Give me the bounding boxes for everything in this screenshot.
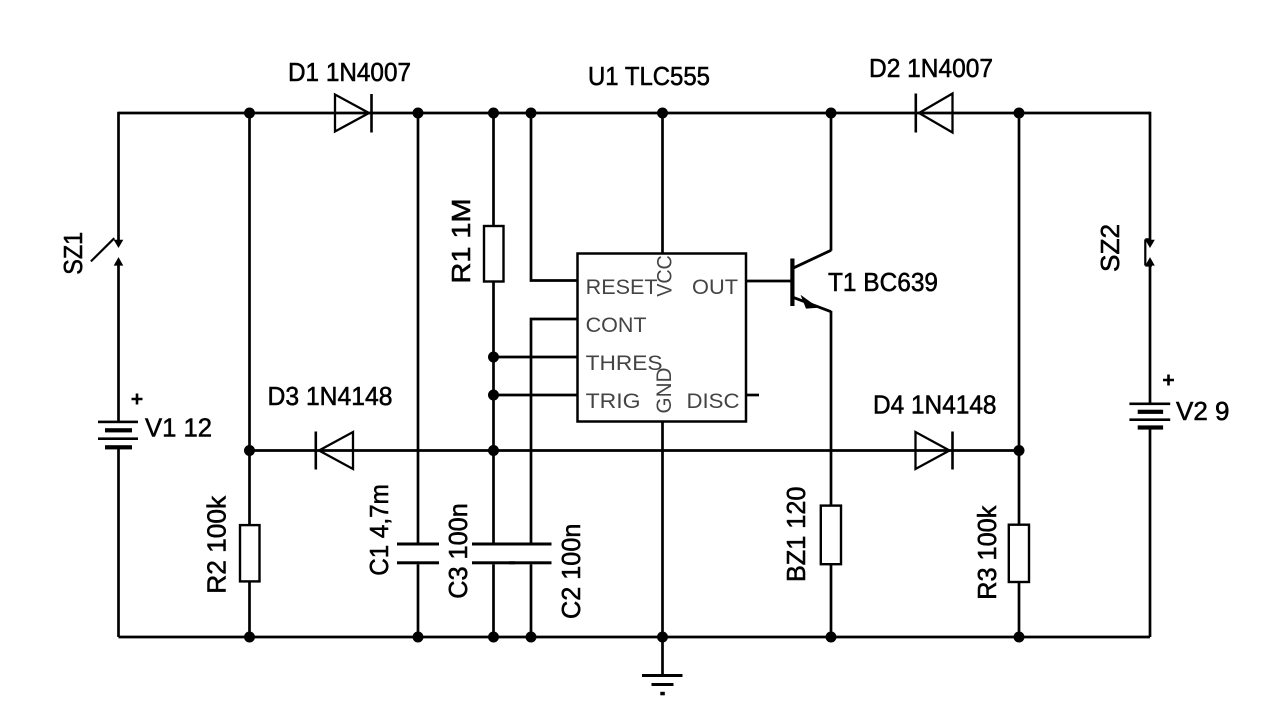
svg-text:D2 1N4007: D2 1N4007: [869, 53, 993, 83]
wire column R3 lower: [1018, 582, 1021, 637]
svg-text:TRIG: TRIG: [586, 390, 641, 413]
label D3 1N4148: [268, 381, 393, 411]
svg-text:BZ1 120: BZ1 120: [781, 487, 811, 583]
svg-text:RESET: RESET: [586, 276, 658, 299]
label C1 4,7m: [364, 484, 394, 576]
ground: [642, 674, 683, 695]
label D2 1N4007: [869, 53, 993, 83]
wire right rail upper: [1149, 112, 1152, 241]
diode D3: [316, 432, 353, 470]
svg-text:D4 1N4148: D4 1N4148: [873, 390, 997, 420]
wire emitter column: [830, 311, 833, 506]
svg-text:V2 9: V2 9: [1176, 396, 1230, 426]
resistor R1: [484, 226, 504, 282]
pin DISC: [687, 390, 740, 413]
label R1 1M: [446, 199, 476, 284]
svg-text:R3 100k: R3 100k: [972, 505, 1002, 600]
wire BZ1 lower: [830, 564, 833, 637]
transistor T1: [790, 250, 831, 311]
IC U1 box: [578, 254, 747, 422]
wire THRES net: [494, 356, 579, 359]
pin THRES: [586, 352, 663, 375]
wire column R1 upper: [492, 113, 495, 226]
battery V2: [1129, 403, 1170, 430]
svg-text:OUT: OUT: [692, 276, 738, 299]
wire diode row: [250, 449, 1020, 452]
capacitor C3: [472, 543, 515, 565]
wire RESET net: [531, 113, 578, 281]
diode D4: [916, 432, 953, 470]
label V2 9: [1176, 396, 1230, 426]
label C2 100n: [556, 524, 586, 619]
svg-text:R2 100k: R2 100k: [202, 495, 232, 594]
capacitor C1: [397, 543, 439, 565]
wire column R2 lower: [248, 581, 251, 637]
label V1 12: [145, 413, 212, 443]
wire TRIG net: [494, 394, 579, 397]
wire top rail: [119, 112, 1151, 115]
svg-text:THRES: THRES: [586, 352, 663, 375]
wire right rail lower: [1149, 428, 1152, 638]
switch SZ1: [91, 238, 122, 264]
pin TRIG: [586, 390, 641, 413]
svg-text:GND: GND: [653, 368, 676, 414]
switch SZ2: [1145, 239, 1153, 265]
wire bottom rail: [119, 636, 1151, 639]
node top rail junctions: [244, 108, 1025, 119]
svg-text:D3 1N4148: D3 1N4148: [268, 381, 393, 411]
capacitor C2: [509, 543, 552, 565]
plus sign V2: [1163, 375, 1174, 386]
label R3 100k: [972, 505, 1002, 600]
wire left rail lower: [117, 447, 120, 637]
label D1 1N4007: [288, 57, 411, 87]
svg-text:DISC: DISC: [687, 390, 740, 413]
svg-text:R1 1M: R1 1M: [446, 199, 476, 284]
svg-text:V1 12: V1 12: [145, 413, 212, 443]
wire column C3 lower: [492, 564, 495, 637]
wire left rail middle: [117, 265, 120, 422]
svg-text:SZ2: SZ2: [1095, 224, 1125, 272]
wire CONT net: [531, 319, 578, 543]
label BZ1 120: [781, 487, 811, 583]
plus sign V1: [132, 394, 143, 405]
svg-text:C3 100n: C3 100n: [443, 503, 473, 599]
svg-text:SZ1: SZ1: [58, 232, 88, 275]
battery V1: [98, 421, 138, 450]
wire column R2 upper: [248, 113, 251, 525]
diode D2: [916, 94, 953, 133]
wire column R3 upper: [1018, 113, 1021, 525]
node THRES junction: [488, 352, 499, 363]
wire column C1 lower: [417, 564, 420, 637]
svg-text:VCC: VCC: [654, 255, 677, 297]
pin RESET: [586, 276, 658, 299]
pin VCC: [654, 255, 677, 297]
label SZ2: [1095, 224, 1125, 272]
wire right rail middle: [1149, 265, 1152, 404]
svg-text:CONT: CONT: [586, 314, 647, 337]
label R2 100k: [202, 495, 232, 594]
node TRIG junction: [488, 390, 499, 401]
wire GND stub: [661, 422, 664, 676]
label T1 BC639: [828, 267, 938, 297]
resistor R2: [240, 525, 260, 581]
node bottom rail junctions: [244, 632, 1025, 643]
svg-text:C2 100n: C2 100n: [556, 524, 586, 619]
label U1 TLC555: [588, 61, 710, 91]
wire column R1 lower: [492, 282, 495, 544]
pin CONT: [586, 314, 647, 337]
wire collector column: [830, 113, 833, 251]
svg-text:C1 4,7m: C1 4,7m: [364, 484, 394, 576]
svg-text:U1 TLC555: U1 TLC555: [588, 61, 710, 91]
buzzer BZ1: [821, 506, 841, 565]
label C3 100n: [443, 503, 473, 599]
resistor R3: [1009, 525, 1029, 582]
wire left rail upper: [117, 112, 120, 241]
label SZ1: [58, 232, 88, 275]
wire column C1 upper: [417, 113, 420, 543]
label D4 1N4148: [873, 390, 997, 420]
wire column C2 lower: [530, 564, 533, 637]
wire VCC stub: [661, 113, 664, 254]
svg-text:T1 BC639: T1 BC639: [828, 267, 938, 297]
node diode row junctions: [244, 445, 1025, 456]
wire DISC stub: [746, 394, 759, 397]
pin OUT: [692, 276, 738, 299]
pin GND: [653, 368, 676, 414]
wire OUT stub: [746, 280, 791, 283]
svg-text:D1 1N4007: D1 1N4007: [288, 57, 411, 87]
diode D1: [335, 94, 372, 133]
